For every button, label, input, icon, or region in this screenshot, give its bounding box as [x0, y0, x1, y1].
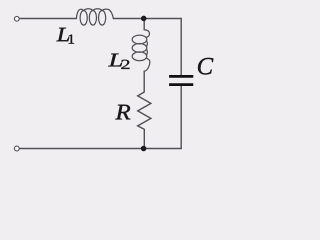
terminal top-left: [14, 16, 19, 21]
label R: [115, 105, 130, 120]
resistor R: [138, 92, 151, 129]
wire right vertical: [180, 19, 182, 149]
capacitor C: [169, 76, 193, 84]
label L2: [108, 54, 129, 69]
wire bottom: [19, 148, 181, 150]
node junction top: [141, 16, 147, 22]
terminal bottom-left: [14, 146, 19, 151]
wire middle branch: [143, 19, 145, 149]
wire top: [19, 18, 181, 20]
node junction bottom: [141, 146, 147, 152]
inductor L1: [76, 9, 113, 25]
label L1: [56, 28, 74, 44]
inductor L2: [132, 30, 150, 71]
label C: [198, 58, 213, 75]
